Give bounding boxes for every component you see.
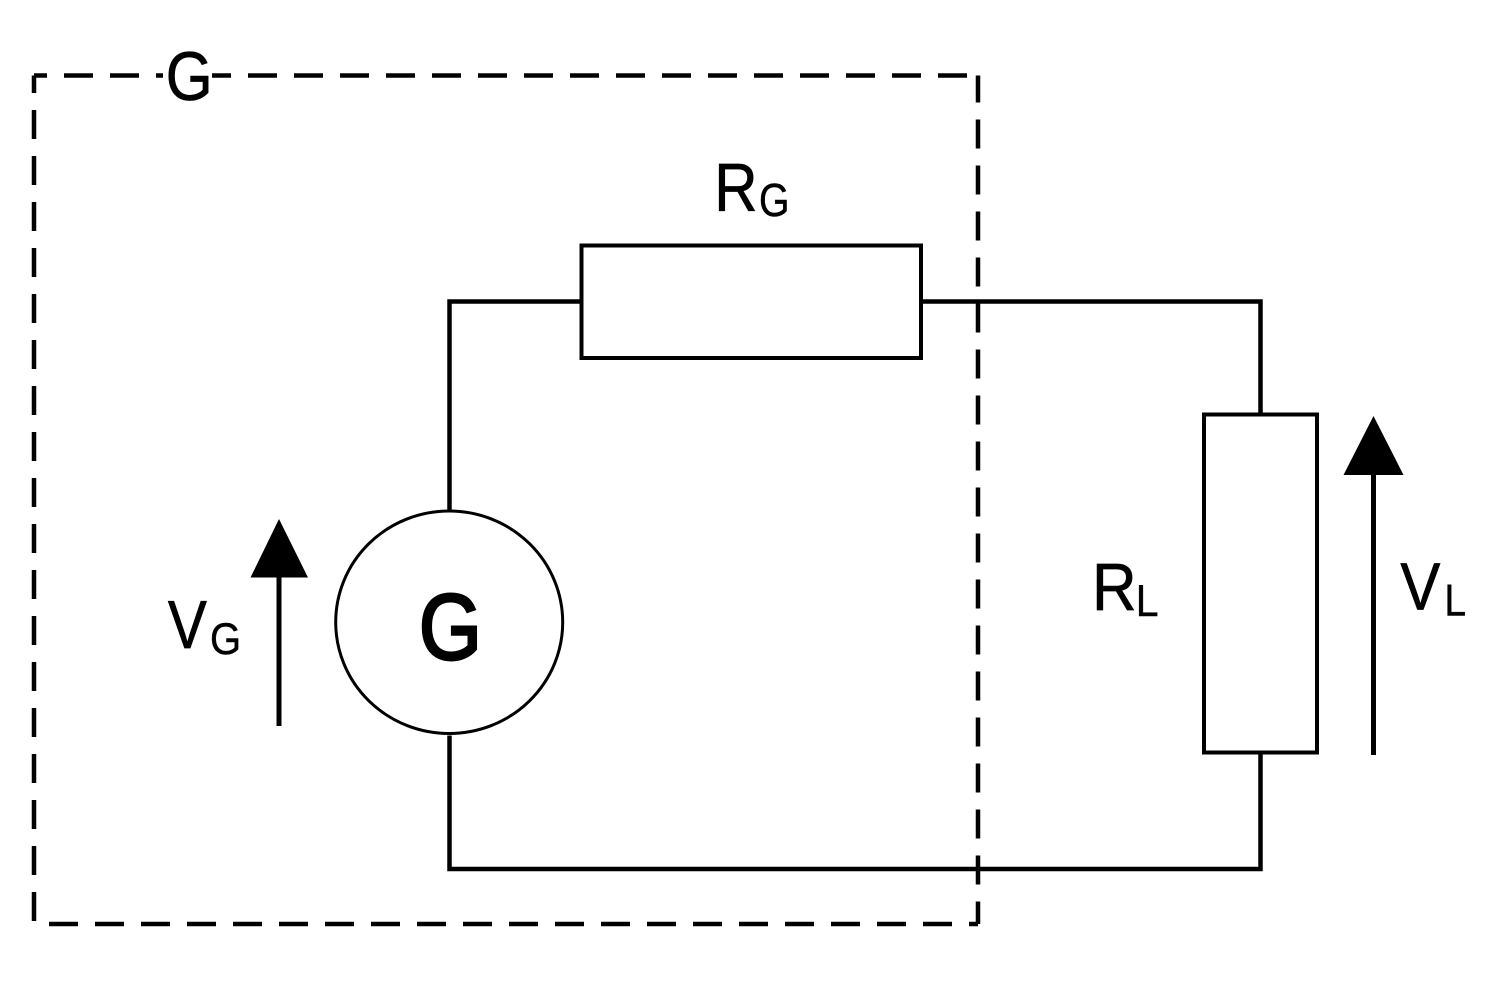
svg-text:L: L	[1444, 575, 1466, 625]
svg-text:V: V	[168, 588, 207, 663]
svg-text:G: G	[166, 37, 213, 115]
svg-text:G: G	[759, 175, 789, 227]
svg-text:G: G	[210, 614, 241, 663]
svg-text:R: R	[714, 150, 757, 226]
svg-text:G: G	[419, 576, 482, 679]
svg-text:L: L	[1136, 576, 1159, 626]
svg-text:V: V	[1400, 551, 1441, 625]
svg-text:R: R	[1092, 549, 1137, 624]
